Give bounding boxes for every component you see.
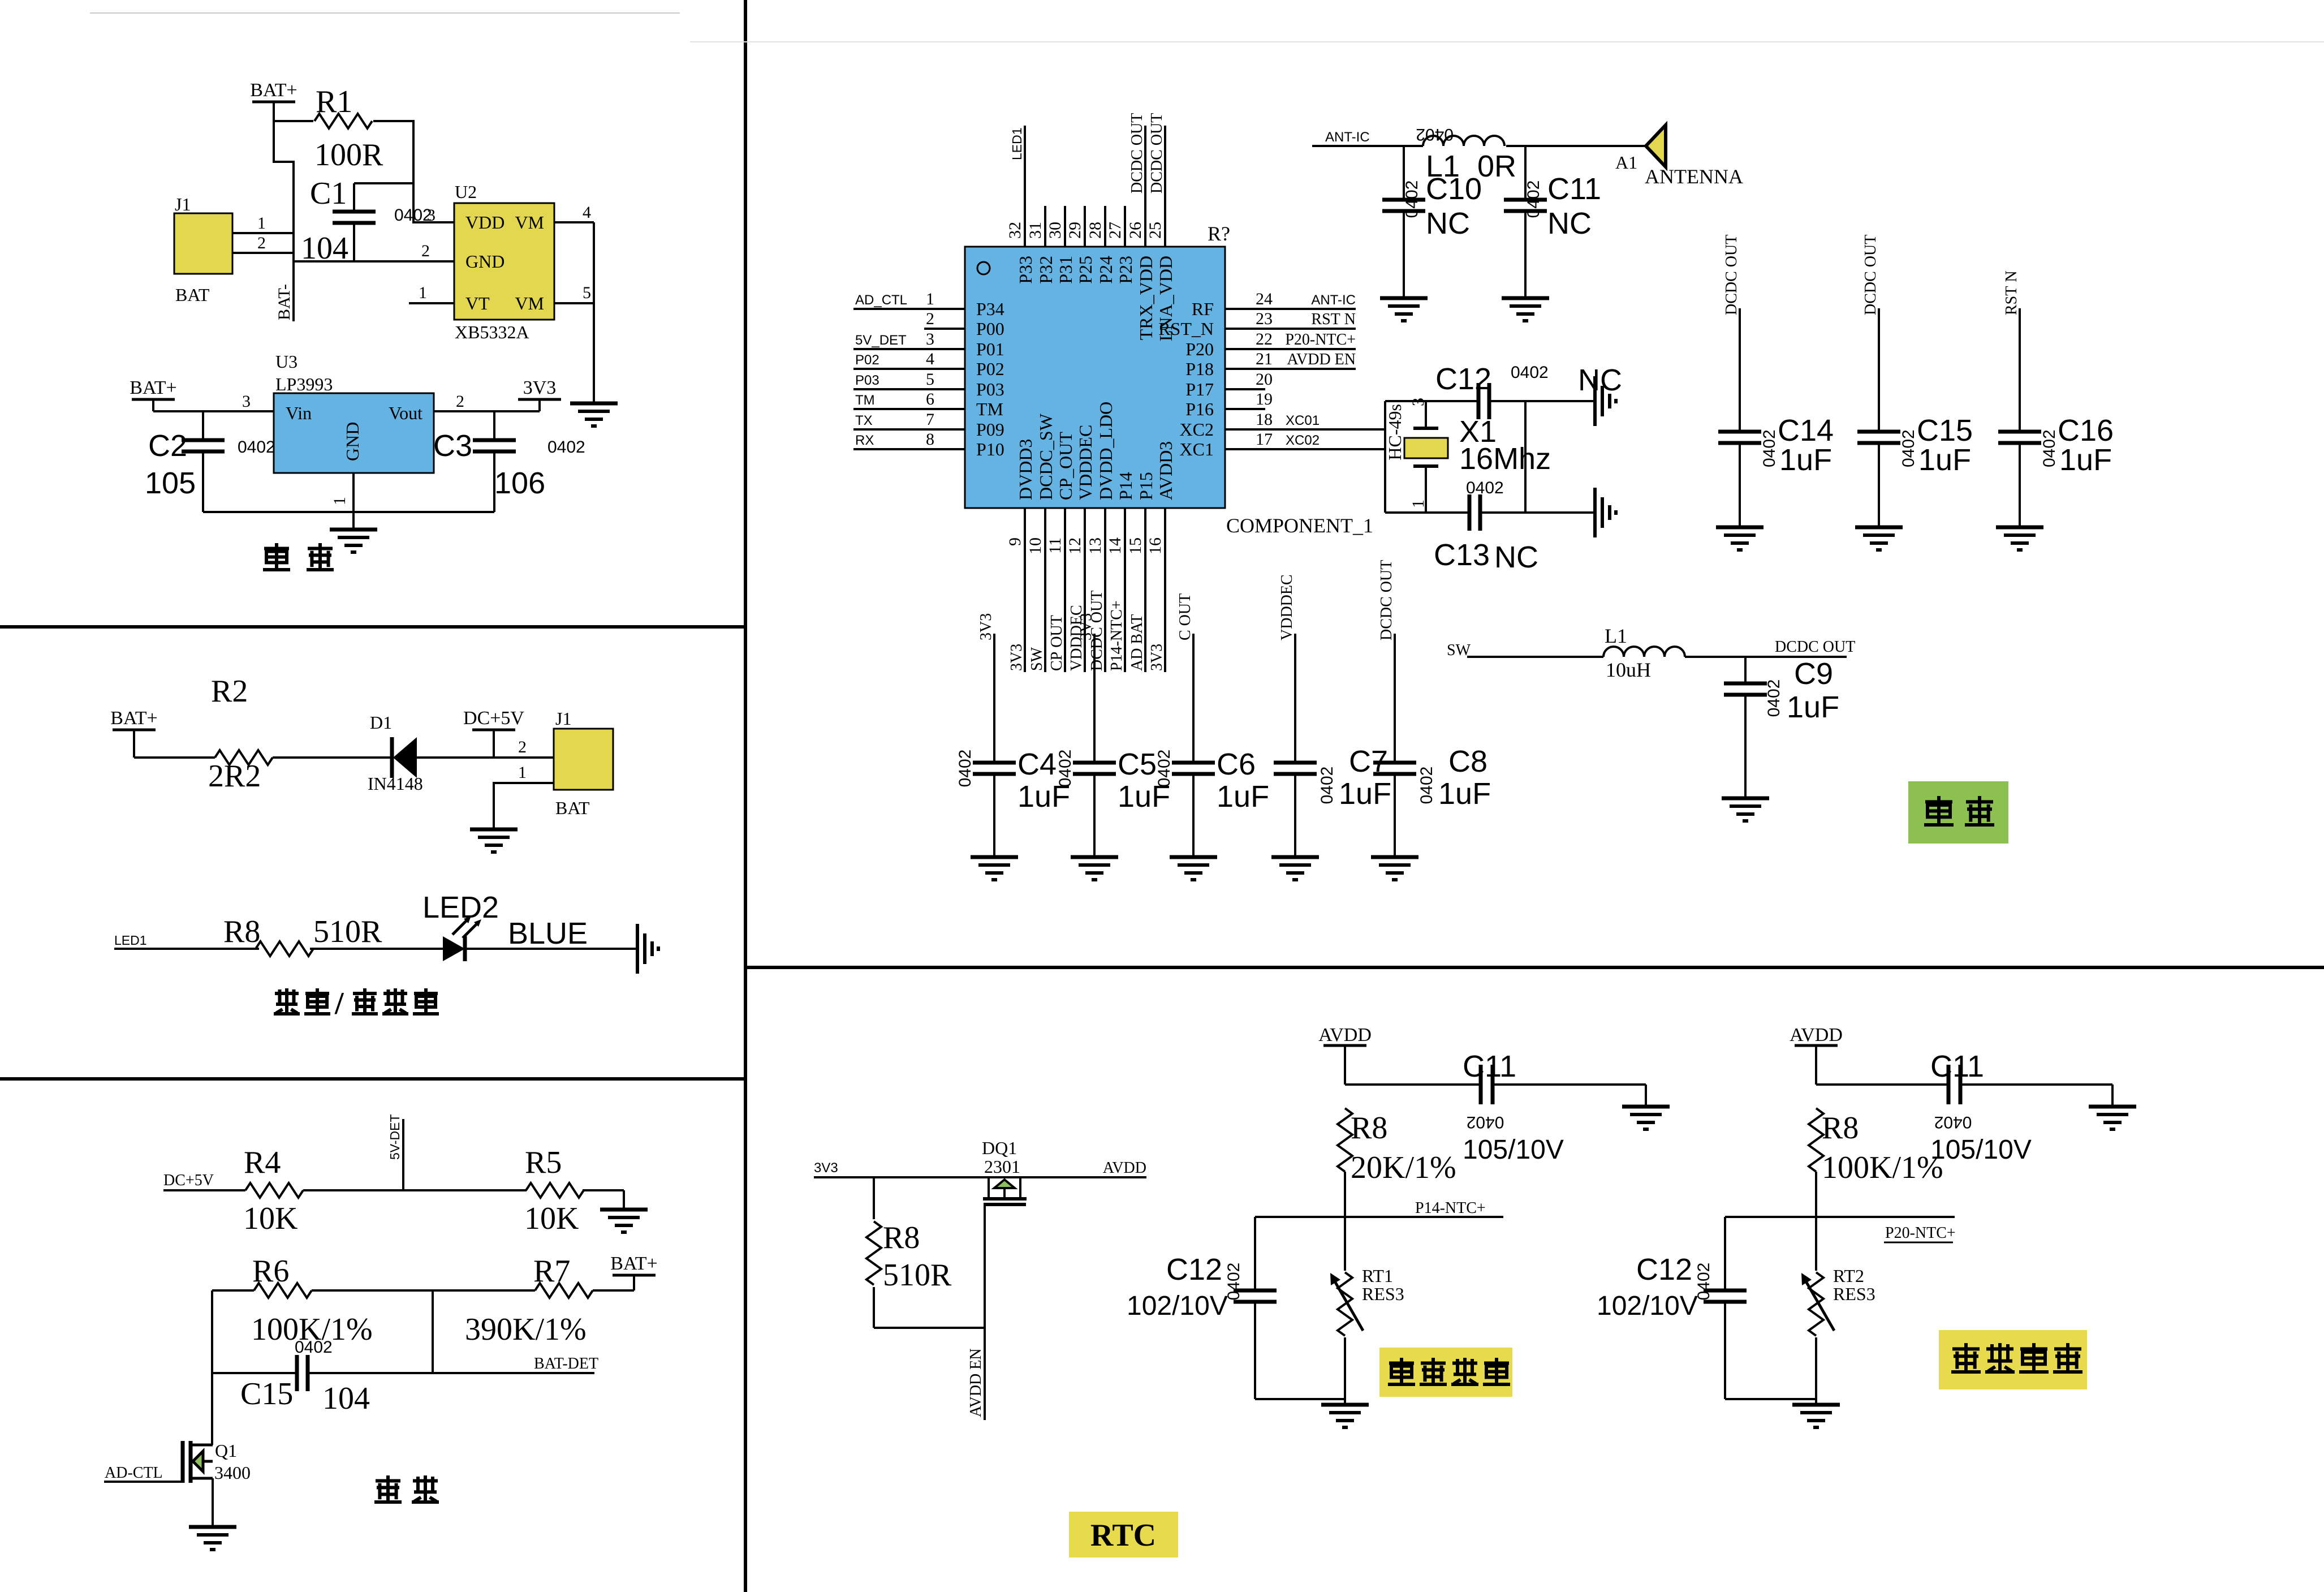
svg-text:2: 2 <box>421 242 430 260</box>
wire R8 to node <box>1815 1172 1817 1217</box>
capacitor C7 1uF <box>1274 574 1391 857</box>
wire node P20-NTC+ <box>1725 1217 1956 1242</box>
net label BAT- <box>275 284 294 320</box>
svg-text:P01: P01 <box>976 339 1004 359</box>
svg-text:3V3: 3V3 <box>1148 644 1166 671</box>
svg-text:LP3993: LP3993 <box>275 374 333 394</box>
power flag AVDD (RT2) <box>1790 1025 1843 1085</box>
transistor DQ1 2301 <box>982 1138 1027 1204</box>
wire to R6 <box>212 1289 254 1292</box>
svg-text:XC01: XC01 <box>1286 413 1320 428</box>
svg-text:510R: 510R <box>313 914 382 949</box>
ground (C11 RT1) <box>1622 1107 1670 1129</box>
capacitor C14 1uF <box>1718 235 1834 527</box>
svg-text:C5: C5 <box>1118 747 1157 781</box>
svg-text:XC2: XC2 <box>1180 419 1214 440</box>
svg-text:1: 1 <box>518 763 527 782</box>
wire C12 bottom (RT1) <box>1255 1398 1345 1400</box>
svg-text:5: 5 <box>583 283 591 302</box>
ground (C4) <box>971 857 1018 880</box>
svg-text:NC: NC <box>1578 363 1622 397</box>
svg-text:Q1: Q1 <box>215 1440 237 1461</box>
svg-text:0402: 0402 <box>1899 429 1918 467</box>
svg-text:L1: L1 <box>1605 625 1627 647</box>
svg-text:105/10V: 105/10V <box>1463 1135 1564 1165</box>
svg-text:R8: R8 <box>883 1220 920 1255</box>
wire D1 to J1 <box>417 738 554 758</box>
svg-text:3: 3 <box>427 206 436 225</box>
wire R8 bottom <box>874 1287 985 1328</box>
ground (Q1) <box>189 1527 236 1550</box>
label box 环境温度 <box>1939 1330 2087 1389</box>
svg-text:30: 30 <box>1046 222 1064 239</box>
capacitor C9 1uF <box>1724 657 1839 798</box>
power flag AVDD (RT1) <box>1318 1025 1372 1085</box>
wire R1 to VDD <box>373 121 454 222</box>
wire J1 pin1 <box>232 214 294 233</box>
svg-text:VM: VM <box>515 293 544 313</box>
ground (C10) <box>1380 298 1428 321</box>
svg-text:BLUE: BLUE <box>508 917 588 950</box>
svg-text:C11: C11 <box>1547 172 1601 206</box>
wire R5 to ground <box>583 1190 624 1210</box>
IC bottom pin 14 (P14) <box>1106 472 1136 672</box>
svg-text:RT2: RT2 <box>1833 1266 1864 1286</box>
IC right pin 23 (RST_N) <box>1158 309 1356 339</box>
ground (R5) <box>600 1210 648 1232</box>
svg-text:0402: 0402 <box>1466 479 1504 497</box>
antenna A1 <box>1615 125 1743 188</box>
wire ANT-IC <box>1312 145 1423 147</box>
ground (C15) <box>1855 527 1903 550</box>
wire to R8 gate <box>873 1177 875 1219</box>
IC left pin 2 (P00) <box>924 309 1004 339</box>
svg-text:4: 4 <box>926 350 934 368</box>
resistor R8 100K/1% (RT2) <box>1809 1108 1943 1185</box>
net label SW <box>1447 642 1471 659</box>
svg-text:104: 104 <box>322 1381 370 1416</box>
IC bottom pin 15 (P15) <box>1126 472 1156 672</box>
svg-text:P32: P32 <box>1036 256 1056 284</box>
wire C11 to ground (RT1) <box>1493 1085 1646 1107</box>
wire AVDD branch (RT1) <box>1345 1083 1481 1086</box>
svg-text:RST N: RST N <box>2003 270 2020 315</box>
svg-text:3V3: 3V3 <box>523 377 557 398</box>
capacitor C12 NC <box>1435 362 1622 419</box>
resistor R2 <box>208 674 273 794</box>
capacitor C11 NC <box>1504 146 1601 298</box>
svg-text:P14-NTC+: P14-NTC+ <box>1108 600 1126 671</box>
svg-text:P20-NTC+: P20-NTC+ <box>1885 1224 1956 1242</box>
diode D1 IN4148 <box>368 712 423 794</box>
svg-text:0402: 0402 <box>394 206 432 225</box>
svg-text:DQ1: DQ1 <box>982 1138 1017 1158</box>
svg-text:Vin: Vin <box>286 403 312 423</box>
wire R6 left vertical <box>211 1290 213 1445</box>
resistor R8 510R <box>223 914 382 956</box>
IC left pin 3 (P01) <box>853 330 1004 359</box>
svg-text:AVDD: AVDD <box>1790 1025 1843 1045</box>
IC COMPONENT_1 body <box>965 222 1373 537</box>
ground (U2 VM) <box>570 403 618 426</box>
svg-text:BAT+: BAT+ <box>130 377 176 398</box>
svg-text:1: 1 <box>257 214 266 233</box>
svg-text:23: 23 <box>1256 309 1273 328</box>
svg-text:DVDD3: DVDD3 <box>1015 439 1036 500</box>
net label AD-CTL <box>105 1464 163 1482</box>
svg-text:RF: RF <box>1192 299 1214 319</box>
svg-text:C6: C6 <box>1217 747 1256 781</box>
wire 3V3 to DQ1 <box>814 1176 1020 1178</box>
resistor R4 <box>243 1145 303 1236</box>
svg-text:C OUT: C OUT <box>1176 593 1194 640</box>
svg-text:0402: 0402 <box>1511 363 1549 382</box>
power flag BAT+ (R2) <box>110 708 157 758</box>
svg-text:19: 19 <box>1256 390 1273 408</box>
svg-text:AD BAT: AD BAT <box>1128 614 1146 671</box>
wire R8 to LED2 <box>310 948 443 950</box>
svg-text:P23: P23 <box>1115 256 1136 284</box>
svg-text:100R: 100R <box>314 137 383 173</box>
svg-text:8: 8 <box>926 430 934 449</box>
svg-text:3V3: 3V3 <box>1008 644 1025 671</box>
capacitor C10 NC <box>1382 146 1482 298</box>
ground (C13, rotated) <box>1595 488 1616 537</box>
svg-text:21: 21 <box>1256 350 1273 368</box>
svg-text:DCDC OUT: DCDC OUT <box>1775 638 1855 656</box>
power flag BAT+ (U3) <box>130 377 176 399</box>
svg-text:BAT+: BAT+ <box>110 708 157 729</box>
svg-text:0402: 0402 <box>1524 180 1543 218</box>
wire AVDD branch (RT2) <box>1816 1083 1948 1086</box>
wire U2 GND (pin2) <box>294 242 454 261</box>
svg-text:HC-49s: HC-49s <box>1385 404 1405 461</box>
svg-text:0402: 0402 <box>1403 180 1421 218</box>
svg-text:C2: C2 <box>148 429 187 463</box>
svg-text:17: 17 <box>1256 430 1273 449</box>
wire BAT- vertical <box>273 162 294 321</box>
capacitor C16 1uF <box>1998 270 2114 527</box>
svg-text:0402: 0402 <box>1760 429 1779 467</box>
svg-text:C12: C12 <box>1435 362 1491 396</box>
svg-text:R8: R8 <box>1822 1111 1859 1146</box>
svg-text:28: 28 <box>1086 222 1105 239</box>
capacitor C11 105/10V (RT2) <box>1930 1049 2032 1165</box>
svg-text:AVDD3: AVDD3 <box>1155 441 1176 500</box>
ground (C5) <box>1071 857 1118 880</box>
wire node P14-NTC+ <box>1255 1199 1503 1217</box>
svg-text:0402: 0402 <box>1318 767 1336 804</box>
capacitor C15 1uF <box>1857 235 1973 527</box>
svg-text:C4: C4 <box>1017 747 1057 781</box>
wire U2 pin1 VT <box>409 283 454 303</box>
label box RTC <box>1069 1512 1178 1557</box>
svg-text:RST N: RST N <box>1311 311 1356 328</box>
border divider left-h2 <box>0 1077 745 1081</box>
border divider left-h1 <box>0 625 745 629</box>
svg-text:C12: C12 <box>1166 1253 1222 1286</box>
capacitor C2 <box>145 411 275 512</box>
IC right pin 18 (XC2) <box>1180 410 1385 440</box>
svg-text:RTC: RTC <box>1090 1518 1156 1553</box>
svg-text:3: 3 <box>242 392 251 411</box>
svg-text:P20-NTC+: P20-NTC+ <box>1285 331 1356 348</box>
svg-text:0R: 0R <box>1477 149 1516 183</box>
svg-text:IN4148: IN4148 <box>368 773 423 794</box>
svg-text:P10: P10 <box>976 439 1004 459</box>
net label ANT-IC (top) <box>1325 130 1370 145</box>
svg-text:NC: NC <box>1494 540 1538 574</box>
svg-text:3: 3 <box>1409 398 1428 406</box>
wire C1 to GND net <box>353 223 355 261</box>
svg-text:C15: C15 <box>1917 414 1973 448</box>
svg-text:2R2: 2R2 <box>208 759 261 794</box>
IC top pin 26 (TRX_VDD) <box>1126 113 1156 341</box>
ground (RT2) <box>1792 1399 1840 1427</box>
inductor L1 0R <box>1416 125 1516 183</box>
wire LED1 to R8 <box>114 948 259 950</box>
svg-text:106: 106 <box>494 466 545 500</box>
wire U2 pin4 VM <box>554 203 594 222</box>
wire U3 GND pin1 <box>330 473 353 512</box>
svg-text:C8: C8 <box>1448 745 1487 778</box>
svg-text:16Mhz: 16Mhz <box>1459 442 1551 476</box>
svg-text:9: 9 <box>1006 537 1024 546</box>
svg-text:0402: 0402 <box>1416 125 1454 144</box>
svg-text:BAT+: BAT+ <box>250 80 297 101</box>
label box 主控 <box>1908 781 2008 844</box>
wire C12 to ground <box>1489 400 1595 402</box>
svg-text:C16: C16 <box>2058 414 2114 448</box>
svg-text:7: 7 <box>926 410 934 429</box>
IC bottom pin 12 (VDDDEC) <box>1066 425 1096 672</box>
svg-text:AD-CTL: AD-CTL <box>105 1464 163 1482</box>
svg-text:3V3: 3V3 <box>814 1160 838 1176</box>
svg-text:P02: P02 <box>976 359 1004 379</box>
svg-text:13: 13 <box>1086 537 1105 554</box>
svg-text:VM: VM <box>515 212 544 233</box>
wire BAT+ to R2 <box>134 756 215 759</box>
svg-text:R1: R1 <box>316 84 352 119</box>
svg-text:1uF: 1uF <box>1339 777 1391 811</box>
wire BAT+ stem <box>273 101 275 163</box>
svg-text:P03: P03 <box>855 373 879 388</box>
capacitor C5 1uF <box>1056 613 1170 857</box>
svg-text:A1: A1 <box>1615 152 1637 173</box>
svg-text:3: 3 <box>926 330 934 348</box>
wire J1 pin1 to ground <box>494 763 554 829</box>
wire LED2 to ground <box>465 948 637 950</box>
IC right pin 19 (P16) <box>1185 390 1273 419</box>
svg-text:1uF: 1uF <box>1787 690 1839 724</box>
svg-text:GND: GND <box>342 422 363 461</box>
svg-text:TX: TX <box>855 413 873 428</box>
IC top pin 31 (P32) <box>1026 206 1056 284</box>
svg-text:R7: R7 <box>533 1254 570 1289</box>
transistor Q1 3400 <box>104 1373 251 1527</box>
svg-text:14: 14 <box>1106 537 1124 554</box>
svg-text:XC02: XC02 <box>1286 433 1320 448</box>
wire C13 to ground <box>1480 511 1595 514</box>
ground (RT1) <box>1321 1399 1369 1427</box>
capacitor C3 <box>433 411 585 512</box>
svg-text:2: 2 <box>456 392 464 411</box>
svg-text:0402: 0402 <box>2040 429 2059 467</box>
svg-text:2: 2 <box>518 738 527 756</box>
svg-text:24: 24 <box>1256 290 1273 308</box>
IC bottom pin 9 (DVDD3) <box>1006 439 1036 672</box>
IC bottom pin 13 (DVDD_LDO) <box>1086 402 1116 672</box>
thermistor RT2 RES3 <box>1 1 1875 1399</box>
IC right pin 17 (XC1) <box>1180 430 1385 459</box>
svg-text:25: 25 <box>1146 222 1165 239</box>
IC left pin 4 (P02) <box>853 350 1004 379</box>
resistor R1 <box>314 84 383 173</box>
ground (C6) <box>1170 857 1217 880</box>
IC U2 XB5332A <box>454 182 554 342</box>
svg-text:C10: C10 <box>1426 172 1482 206</box>
ground (C14) <box>1716 527 1764 550</box>
svg-text:1: 1 <box>1409 500 1428 508</box>
svg-text:10K: 10K <box>524 1201 579 1236</box>
svg-text:P25: P25 <box>1075 256 1096 284</box>
svg-text:5V-DET: 5V-DET <box>387 1114 402 1160</box>
power flag BAT+ (R7) <box>610 1253 657 1290</box>
svg-text:DCDC OUT: DCDC OUT <box>1723 235 1740 315</box>
svg-text:P00: P00 <box>976 319 1004 339</box>
section title 电源 <box>263 543 334 570</box>
wire C11 to ground (RT2) <box>1960 1085 2112 1107</box>
svg-text:510R: 510R <box>883 1258 952 1293</box>
svg-text:AVDD: AVDD <box>1318 1025 1372 1045</box>
svg-text:10: 10 <box>1026 537 1045 554</box>
ground (C11 RT2) <box>2089 1107 2136 1129</box>
svg-text:ANTENNA: ANTENNA <box>1645 165 1743 188</box>
svg-text:LED2: LED2 <box>422 890 499 924</box>
svg-text:R8: R8 <box>223 914 260 949</box>
svg-text:TM: TM <box>976 399 1003 419</box>
svg-text:R5: R5 <box>525 1145 562 1180</box>
svg-text:DC+5V: DC+5V <box>163 1172 214 1189</box>
svg-text:P17: P17 <box>1185 379 1214 399</box>
svg-text:XB5332A: XB5332A <box>455 322 529 342</box>
wire J1 pin2 <box>232 234 294 253</box>
svg-text:C14: C14 <box>1778 414 1834 448</box>
svg-text:10K: 10K <box>243 1201 297 1236</box>
inductor L1 10uH <box>1603 625 1685 681</box>
ground (C8) <box>1371 857 1418 880</box>
capacitor C4 1uF <box>956 613 1070 857</box>
svg-text:U3: U3 <box>275 351 297 372</box>
ground (C16) <box>1996 527 2043 550</box>
IC top pin 27 (P23) <box>1106 206 1136 284</box>
svg-text:DC+5V: DC+5V <box>463 708 524 729</box>
svg-text:C3: C3 <box>433 429 472 463</box>
wire XC2 vertical loop <box>1384 401 1386 513</box>
capacitor C12 102/10V (RT1) <box>1127 1217 1277 1399</box>
svg-text:VDDDEC: VDDDEC <box>1278 574 1296 640</box>
ground (J1 charging) <box>470 829 518 852</box>
svg-text:16: 16 <box>1146 537 1165 554</box>
wire R8 to node <box>1344 1172 1346 1217</box>
svg-text:0402: 0402 <box>1224 1263 1243 1301</box>
svg-text:ANT-IC: ANT-IC <box>1311 292 1356 308</box>
wire R7 to BAT+ <box>593 1289 634 1292</box>
connector J1 (BAT) <box>174 194 232 305</box>
svg-text:BAT+: BAT+ <box>610 1253 657 1274</box>
svg-text:P15: P15 <box>1136 472 1156 500</box>
LED LED2 BLUE <box>422 890 588 961</box>
net label 3V3 (RTC) <box>814 1160 838 1176</box>
wire U2 pin5 VM <box>554 283 594 303</box>
svg-text:102/10V: 102/10V <box>1127 1291 1228 1321</box>
svg-text:5: 5 <box>926 370 934 389</box>
net label AVDD (DQ1) <box>1020 1159 1146 1177</box>
power flag DC+5V <box>463 708 524 758</box>
svg-text:DCDC OUT: DCDC OUT <box>1862 235 1879 315</box>
wire DC+5V to R4 <box>163 1189 245 1191</box>
wire SW to L1 <box>1467 656 1603 658</box>
svg-text:100K/1%: 100K/1% <box>1822 1150 1943 1185</box>
svg-text:DCDC OUT: DCDC OUT <box>1128 113 1146 193</box>
section title 充电/指示灯 <box>274 986 439 1021</box>
svg-text:3400: 3400 <box>214 1462 251 1483</box>
ground (LED2, rotated) <box>637 924 658 974</box>
IC top pin 32 (P33) <box>1006 126 1036 284</box>
svg-text:0402: 0402 <box>1934 1113 1972 1131</box>
svg-text:DVDD_LDO: DVDD_LDO <box>1096 402 1116 500</box>
svg-text:1uF: 1uF <box>1217 780 1269 814</box>
svg-text:31: 31 <box>1026 222 1045 239</box>
svg-text:TM: TM <box>855 393 875 408</box>
svg-text:1: 1 <box>419 283 427 302</box>
svg-text:0402: 0402 <box>1765 679 1783 717</box>
resistor R7 <box>465 1254 593 1347</box>
net label DC+5V (det) <box>163 1172 214 1189</box>
svg-text:AVDD: AVDD <box>1103 1159 1146 1177</box>
capacitor C6 1uF <box>1155 593 1269 857</box>
svg-text:BAT-: BAT- <box>275 284 294 320</box>
IC U3 LP3993 <box>274 351 434 473</box>
IC top pin 29 (P25) <box>1066 206 1096 284</box>
svg-text:27: 27 <box>1106 222 1124 239</box>
svg-text:AD_CTL: AD_CTL <box>855 292 907 308</box>
section title 检测 <box>374 1475 439 1503</box>
svg-text:1uF: 1uF <box>1918 443 1971 477</box>
IC top pin 30 (P31) <box>1046 206 1076 284</box>
svg-text:0402: 0402 <box>956 750 975 788</box>
capacitor C13 NC <box>1434 479 1538 574</box>
svg-text:R8: R8 <box>1351 1111 1387 1146</box>
svg-text:RST_N: RST_N <box>1158 319 1214 339</box>
svg-text:22: 22 <box>1256 330 1273 348</box>
thermistor RT1 RES3 <box>1 1 1404 1399</box>
svg-text:/: / <box>334 986 344 1021</box>
svg-text:C13: C13 <box>1434 538 1490 572</box>
svg-text:LED1: LED1 <box>1010 127 1024 160</box>
wire U3 pin2 Vout <box>434 392 540 411</box>
svg-text:0402: 0402 <box>1155 750 1174 788</box>
wire L1 to DCDC_OUT <box>1685 638 1855 657</box>
svg-text:LED1: LED1 <box>114 933 147 948</box>
svg-text:3V3: 3V3 <box>1077 613 1095 640</box>
IC bottom pin 10 (DCDC_SW) <box>1026 413 1056 672</box>
svg-text:P14: P14 <box>1115 472 1136 500</box>
ground (C11) <box>1502 298 1549 321</box>
svg-text:P33: P33 <box>1015 256 1036 284</box>
wire C15 left <box>212 1372 297 1374</box>
wire L1 to antenna <box>1506 145 1646 147</box>
